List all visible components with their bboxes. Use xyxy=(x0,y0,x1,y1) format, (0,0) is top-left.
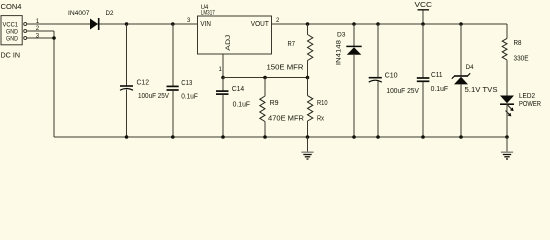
svg-text:LED2: LED2 xyxy=(519,93,535,100)
junction C13/bottom rail xyxy=(171,135,175,139)
wire C12 lower xyxy=(126,89,128,137)
svg-text:CON4: CON4 xyxy=(1,4,22,11)
junction D3/top rail xyxy=(352,22,356,26)
junction D3/bottom rail xyxy=(352,135,356,139)
wire R10 lower xyxy=(307,121,309,137)
junction C11/bottom rail xyxy=(421,135,425,139)
wire pin1 to VIN (top rail left) xyxy=(27,23,198,25)
junction pin3/GND xyxy=(52,36,56,40)
svg-text:R8: R8 xyxy=(514,40,522,47)
wire ADJ rail xyxy=(223,77,308,79)
wire R9 upper xyxy=(264,78,266,97)
wire C14 lower xyxy=(222,95,224,137)
wire bottom ground rail xyxy=(54,136,507,138)
diode D3 xyxy=(346,46,361,54)
svg-text:C13: C13 xyxy=(181,80,192,87)
junction R7/ADJ rail xyxy=(306,76,310,80)
svg-text:470E MFR: 470E MFR xyxy=(268,116,304,123)
connector CON4 body xyxy=(1,16,27,45)
wire VOUT rail xyxy=(272,23,507,25)
resistor R7 xyxy=(308,35,313,61)
junction C12/top rail xyxy=(125,22,129,26)
wire D4 upper xyxy=(460,24,462,76)
svg-text:IN4007: IN4007 xyxy=(68,10,90,17)
wire GND vertical down xyxy=(53,31,55,137)
junction C10/bottom rail xyxy=(376,135,380,139)
junction R9/ADJ rail xyxy=(263,76,267,80)
svg-text:IN4148: IN4148 xyxy=(336,40,343,66)
svg-text:C11: C11 xyxy=(431,72,443,79)
junction R7/top rail xyxy=(306,22,310,26)
svg-text:Rx: Rx xyxy=(317,116,324,123)
wire R9 lower xyxy=(264,122,266,138)
svg-text:0.1uF: 0.1uF xyxy=(233,102,251,109)
svg-text:D4: D4 xyxy=(466,64,474,71)
wire C10 upper xyxy=(377,24,379,77)
svg-text:5.1V TVS: 5.1V TVS xyxy=(465,87,498,94)
ground symbol (middle) xyxy=(301,137,313,159)
junction D4/bottom rail xyxy=(459,135,463,139)
wire C11 lower xyxy=(422,82,424,137)
wire LED to bottom rail xyxy=(506,104,508,137)
svg-text:330E: 330E xyxy=(514,56,529,63)
svg-text:POWER: POWER xyxy=(519,101,541,108)
wire C11 upper xyxy=(422,24,424,78)
capacitor C14 xyxy=(216,91,229,94)
svg-text:100uF 25V: 100uF 25V xyxy=(138,93,169,100)
junction C13/top rail xyxy=(171,22,175,26)
junction C14/bottom rail xyxy=(221,135,225,139)
svg-text:0.1uF: 0.1uF xyxy=(181,94,198,101)
svg-text:VCC1: VCC1 xyxy=(3,22,19,29)
junction LED/bottom rail xyxy=(505,135,509,139)
svg-text:D3: D3 xyxy=(337,32,346,39)
wire D3 lower xyxy=(353,55,355,137)
junction VCC/C11/top rail xyxy=(421,22,425,26)
svg-text:C12: C12 xyxy=(137,80,150,87)
junction C12/bottom rail xyxy=(125,135,129,139)
junction R10/bottom rail + ground stub xyxy=(306,135,310,139)
capacitor C13 xyxy=(167,86,179,90)
junction C10/top rail xyxy=(376,22,380,26)
wire R8 to LED xyxy=(506,60,508,96)
wire C10 lower xyxy=(377,81,379,137)
regulator U4 LM317 body xyxy=(198,16,272,54)
svg-text:R7: R7 xyxy=(288,41,296,48)
svg-text:VIN: VIN xyxy=(200,21,211,28)
wire top rail corner down to R8 xyxy=(506,24,508,38)
wire R7 upper xyxy=(307,24,309,35)
wire C13 upper xyxy=(172,24,174,86)
svg-text:D2: D2 xyxy=(106,10,114,17)
wire R7 lower xyxy=(307,61,309,78)
diode D2 xyxy=(90,18,99,30)
svg-text:C10: C10 xyxy=(385,73,398,80)
diode D4 (TVS) xyxy=(452,73,470,84)
svg-text:150E MFR: 150E MFR xyxy=(267,65,304,72)
power VCC symbol xyxy=(418,10,430,24)
junction R9/bottom rail xyxy=(263,135,267,139)
svg-text:R10: R10 xyxy=(317,100,328,107)
svg-text:GND: GND xyxy=(6,29,18,36)
wire D4 lower xyxy=(460,84,462,137)
svg-text:VCC: VCC xyxy=(415,2,433,9)
svg-text:GND: GND xyxy=(6,36,18,43)
wire pin2 xyxy=(27,30,54,32)
wire pin3 xyxy=(27,37,55,39)
resistor R8 xyxy=(502,38,507,60)
junction ADJ corner xyxy=(221,76,225,80)
capacitor C10 xyxy=(369,78,382,82)
capacitor C11 xyxy=(417,78,430,81)
wire C14 upper xyxy=(222,78,224,91)
svg-text:VOUT: VOUT xyxy=(251,21,270,28)
svg-text:100uF 25V: 100uF 25V xyxy=(386,88,419,95)
resistor R10 xyxy=(308,96,313,121)
svg-text:ADJ: ADJ xyxy=(225,35,232,51)
capacitor C12 xyxy=(120,86,133,90)
svg-text:LM317: LM317 xyxy=(201,9,215,16)
svg-text:C14: C14 xyxy=(232,86,245,93)
wire R10 upper xyxy=(307,78,309,96)
wire C13 lower xyxy=(172,91,174,138)
wire ADJ pin down xyxy=(222,54,224,78)
ground symbol (right) xyxy=(501,137,513,159)
LED LED2 xyxy=(500,96,514,117)
junction D4/top rail xyxy=(459,22,463,26)
wire C12 upper xyxy=(126,24,128,86)
svg-text:R9: R9 xyxy=(270,100,279,107)
wire D3 upper xyxy=(353,24,355,46)
svg-text:DC IN: DC IN xyxy=(1,53,20,60)
resistor R9 xyxy=(260,96,265,122)
svg-text:0.1uF: 0.1uF xyxy=(431,86,449,93)
